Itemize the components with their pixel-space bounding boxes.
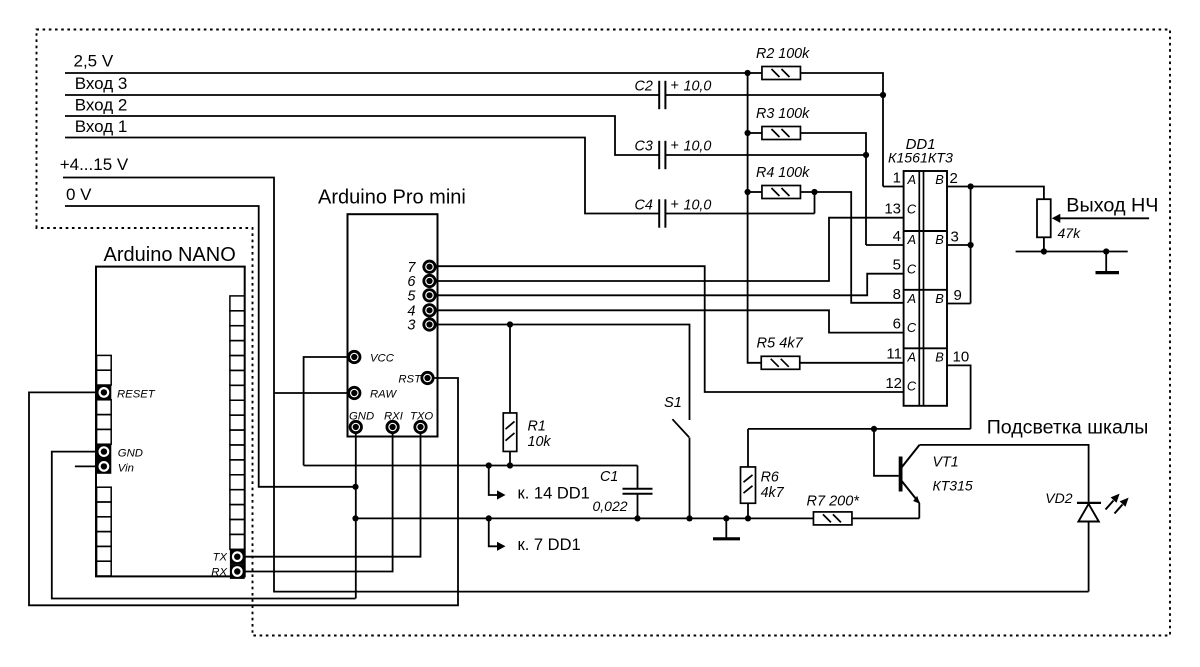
- svg-text:13: 13: [884, 201, 901, 218]
- node gnd symbol: [723, 515, 729, 521]
- wire collector to VD2: [920, 445, 1089, 502]
- svg-text:C: C: [907, 261, 917, 276]
- wire pot bottom rail: [1016, 251, 1128, 253]
- Pro mini pin RST: [422, 372, 433, 383]
- transistor VT1 emitter: [902, 481, 920, 503]
- resistor R4: [762, 186, 801, 199]
- wire R6 top lead: [747, 429, 749, 467]
- NANO pin GND: [97, 444, 112, 459]
- wire GND vertical: [355, 433, 357, 599]
- svg-text:RXI: RXI: [384, 411, 404, 423]
- wire Pro pin3 line: [437, 325, 690, 421]
- svg-text:B: B: [935, 291, 944, 306]
- svg-text:B: B: [935, 172, 944, 187]
- op-amp U1 outline (DD1 switch array body): [904, 171, 947, 406]
- node R6-gnd: [745, 515, 751, 521]
- svg-text:+: +: [671, 197, 679, 213]
- svg-text:5: 5: [893, 257, 901, 274]
- node S1-gnd: [686, 515, 692, 521]
- svg-text:RESET: RESET: [117, 388, 156, 400]
- wire pot bottom lead: [1043, 237, 1045, 251]
- svg-text:B: B: [935, 349, 944, 364]
- svg-text:10,0: 10,0: [684, 79, 712, 95]
- wire 0V bus: [65, 206, 356, 487]
- wire 2,5V bus: [65, 72, 748, 74]
- NANO pin TX: [230, 549, 245, 564]
- node GND-0V: [352, 484, 358, 490]
- svg-text:5: 5: [407, 288, 416, 304]
- wire RST stub: [434, 377, 458, 379]
- node R1-k14: [507, 462, 513, 468]
- LED light arrows: [1106, 501, 1114, 510]
- Pro mini pin 3: [424, 319, 435, 330]
- wire VT1 emitter to R7: [918, 503, 920, 518]
- svg-text:4: 4: [893, 228, 901, 245]
- wire C2 output: [665, 94, 883, 96]
- svg-text:RST: RST: [398, 373, 422, 385]
- svg-text:Вход 1: Вход 1: [75, 117, 128, 136]
- pin 10 wire: [947, 365, 971, 429]
- svg-text:VT1: VT1: [933, 455, 959, 471]
- svg-text:C: C: [907, 320, 917, 335]
- node C2-R2-pin1: [880, 92, 886, 98]
- Pro mini pin RAW: [349, 387, 360, 398]
- wire R1 bottom lead: [509, 452, 511, 466]
- node GND-k7: [352, 515, 358, 521]
- resistor R7: [813, 512, 852, 525]
- pin 3 wire: [947, 244, 971, 246]
- svg-text:12: 12: [885, 375, 902, 392]
- svg-text:GND: GND: [349, 411, 374, 423]
- svg-text:10,0: 10,0: [684, 139, 712, 155]
- wire VT1 base lead: [874, 429, 899, 476]
- wire R4 left lead: [748, 191, 762, 193]
- wire VD2 bottom lead: [1088, 522, 1090, 592]
- svg-text:A: A: [907, 172, 917, 187]
- svg-text:10k: 10k: [528, 434, 552, 450]
- svg-text:8: 8: [893, 286, 901, 303]
- Pro mini pin VCC: [349, 351, 360, 362]
- wire output bus vertical: [970, 187, 972, 304]
- LED VD2: [1077, 502, 1101, 504]
- wire TX to TXO: [245, 434, 421, 557]
- svg-text:R5 4k7: R5 4k7: [757, 336, 804, 352]
- svg-text:Вход 2: Вход 2: [75, 96, 128, 115]
- svg-text:S1: S1: [664, 395, 682, 411]
- arrow k. 7 DD1: [489, 518, 497, 546]
- node pin2 bus: [968, 183, 974, 189]
- node rail-R3: [745, 130, 751, 136]
- wire R3 right lead: [801, 133, 867, 245]
- wire R4 right lead: [801, 192, 904, 303]
- resistor R1: [503, 413, 517, 452]
- svg-text:+4...15 V: +4...15 V: [60, 155, 129, 174]
- node C3-R3-pin4: [863, 152, 869, 158]
- svg-text:Arduino NANO: Arduino NANO: [104, 244, 236, 266]
- svg-text:10,0: 10,0: [684, 198, 712, 214]
- wire RESET to RST: [29, 378, 458, 605]
- node pin3-R1: [507, 321, 513, 327]
- svg-text:Vin: Vin: [118, 462, 134, 474]
- svg-text:3: 3: [951, 229, 959, 246]
- wire R7 right lead: [852, 517, 920, 519]
- svg-text:0,022: 0,022: [593, 498, 628, 514]
- transistor Q1 VT1 base bar: [899, 457, 903, 492]
- svg-text:A: A: [907, 232, 917, 247]
- svg-text:3: 3: [407, 318, 415, 334]
- capacitor C4: [658, 199, 660, 227]
- svg-text:Подсветка шкалы: Подсветка шкалы: [987, 417, 1149, 439]
- wire R2 right lead: [801, 73, 884, 187]
- Pro mini pin RXI: [387, 421, 398, 432]
- pin 6 wire: [437, 310, 904, 332]
- svg-text:КТ315: КТ315: [933, 478, 973, 494]
- resistor R5: [761, 356, 800, 369]
- svg-text:10: 10: [953, 349, 970, 366]
- node pot-gnd rail a: [1041, 248, 1047, 254]
- Pro mini pin 6: [424, 275, 435, 286]
- svg-text:Вход 3: Вход 3: [75, 74, 128, 93]
- svg-text:R4 100k: R4 100k: [756, 165, 810, 181]
- wire +4...15V bus: [63, 178, 1089, 592]
- wire R1 top lead: [509, 325, 511, 414]
- capacitor C3: [658, 141, 660, 169]
- node pin3 bus: [968, 242, 974, 248]
- wire RAW to +4..15V: [274, 392, 349, 394]
- NANO left header squares upper: [97, 355, 112, 370]
- wire S1 bottom lead: [689, 438, 691, 519]
- svg-text:TX: TX: [213, 552, 228, 564]
- wire C1 bottom lead: [637, 494, 639, 519]
- svg-text:R1: R1: [528, 419, 546, 435]
- svg-text:VD2: VD2: [1045, 490, 1072, 506]
- wire C4 riser: [814, 192, 816, 214]
- svg-text:R2 100k: R2 100k: [756, 46, 810, 62]
- wire VCC to k14 line: [304, 357, 349, 466]
- wire Vin stub: [75, 465, 97, 467]
- Pro mini pin 7: [424, 261, 435, 272]
- Pro mini pin 4: [424, 305, 435, 316]
- wire C3 output: [665, 154, 866, 156]
- svg-text:A: A: [907, 291, 917, 306]
- svg-text:R6: R6: [761, 470, 779, 486]
- svg-text:+: +: [671, 78, 679, 94]
- Arduino Pro mini body: [348, 214, 438, 436]
- svg-text:1: 1: [893, 170, 901, 187]
- svg-text:RAW: RAW: [370, 388, 397, 400]
- svg-text:C1: C1: [600, 469, 618, 485]
- transistor VT1 collector: [902, 445, 920, 468]
- wire R3 left lead: [748, 132, 762, 134]
- svg-text:Arduino Pro mini: Arduino Pro mini: [318, 187, 466, 209]
- arrow k. 14 DD1: [489, 466, 497, 496]
- node C1-gnd: [634, 515, 640, 521]
- ground symbol main: [725, 518, 727, 537]
- wire C1 top lead: [637, 466, 639, 489]
- svg-text:к. 7 DD1: к. 7 DD1: [518, 536, 581, 554]
- Pro mini pin GND: [350, 421, 361, 432]
- resistor R6: [741, 467, 756, 503]
- svg-text:к. 14 DD1: к. 14 DD1: [518, 485, 590, 503]
- svg-text:6: 6: [893, 316, 901, 333]
- svg-text:C: C: [907, 201, 917, 216]
- svg-text:C4: C4: [635, 198, 653, 214]
- pin 12 wire: [437, 266, 904, 392]
- wire R2 left lead: [748, 72, 762, 74]
- node rail-R2: [745, 70, 751, 76]
- ground symbol at output: [1105, 252, 1107, 272]
- node R4-C4: [811, 189, 817, 195]
- wire R5 right lead to pin 11: [800, 362, 904, 364]
- pin 9 wire: [947, 303, 971, 305]
- wire NANO GND to ground bus: [52, 452, 356, 599]
- svg-text:VCC: VCC: [370, 352, 395, 364]
- svg-text:C3: C3: [635, 139, 653, 155]
- svg-text:C: C: [907, 379, 917, 394]
- Pro mini pin 5: [424, 290, 435, 301]
- svg-text:2: 2: [950, 170, 958, 187]
- svg-text:Выход НЧ: Выход НЧ: [1066, 195, 1158, 217]
- resistor R3: [762, 127, 801, 140]
- NANO left header squares mid: [97, 400, 112, 415]
- capacitor C2: [658, 81, 660, 109]
- svg-text:B: B: [935, 232, 944, 247]
- svg-text:A: A: [907, 349, 917, 364]
- svg-text:R7 200*: R7 200*: [807, 494, 861, 510]
- svg-text:К1561КТ3: К1561КТ3: [888, 151, 953, 167]
- node base branch: [871, 426, 877, 432]
- svg-text:+: +: [671, 138, 679, 154]
- node pot-gnd rail b: [1103, 248, 1109, 254]
- capacitor C1: [623, 488, 653, 490]
- resistor R2: [762, 67, 801, 80]
- wire ground line: [356, 517, 815, 519]
- pin 5 wire: [437, 274, 904, 296]
- svg-text:47k: 47k: [1058, 225, 1082, 241]
- svg-text:RX: RX: [211, 567, 227, 579]
- NANO pin RX: [230, 564, 245, 579]
- node rail-R4: [745, 189, 751, 195]
- wire Вход 2 bus (to C3): [65, 116, 659, 155]
- svg-text:0 V: 0 V: [66, 185, 92, 204]
- pin 4 wire: [866, 244, 904, 246]
- NANO pin Vin: [97, 459, 112, 474]
- NANO pin RESET: [97, 385, 112, 400]
- svg-text:11: 11: [886, 346, 902, 363]
- Pro mini pin TXO: [415, 421, 426, 432]
- wire Вход 1 bus (to C4): [65, 138, 659, 214]
- svg-text:GND: GND: [118, 448, 143, 460]
- wire pin10 to R6 line: [748, 428, 971, 430]
- svg-text:4k7: 4k7: [761, 485, 785, 501]
- pin 13 wire: [437, 218, 904, 281]
- node k7 branch: [486, 515, 492, 521]
- wire 2,5V vertical rail: [748, 73, 762, 363]
- svg-text:R3 100k: R3 100k: [756, 106, 810, 122]
- wire k14 DD1 line: [304, 465, 638, 467]
- pin 1 wire: [883, 186, 904, 188]
- wire RX to RXI: [245, 434, 393, 572]
- NANO right header squares: [230, 296, 245, 311]
- NANO left header squares lower: [97, 487, 112, 502]
- wire C4 output: [665, 213, 814, 215]
- pin 2 wire: [947, 187, 1044, 200]
- svg-text:C2: C2: [635, 79, 653, 95]
- svg-text:2,5 V: 2,5 V: [74, 52, 114, 71]
- wire Вход 3 bus (to C2): [65, 94, 659, 96]
- node k14 branch: [486, 462, 492, 468]
- svg-text:TXO: TXO: [410, 411, 433, 423]
- wire R6 bottom lead: [747, 503, 749, 518]
- Arduino NANO body: [96, 267, 245, 577]
- wiper arrow Выход НЧ: [1052, 214, 1061, 223]
- svg-text:9: 9: [954, 287, 962, 304]
- potentiometer 47k body: [1037, 199, 1051, 237]
- switch S1 blade: [672, 419, 689, 437]
